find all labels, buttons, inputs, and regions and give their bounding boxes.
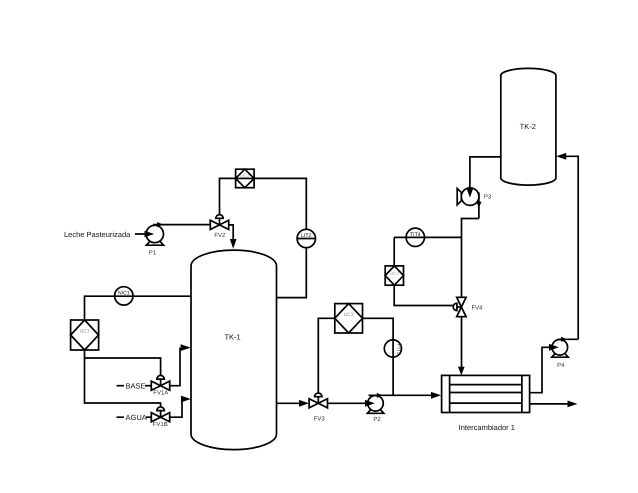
svg-text:FV4: FV4	[471, 305, 483, 312]
wire UC2 to LIT2	[254, 178, 306, 229]
wire P2 discharge to Intercambiador 1	[431, 392, 441, 399]
wire FV2 to TK-1 top	[229, 225, 237, 249]
label P4	[557, 362, 565, 369]
label FV4	[471, 305, 483, 312]
svg-text:Intercambiador 1: Intercambiador 1	[459, 423, 515, 432]
valve FV1A	[151, 375, 169, 390]
label AGUA	[117, 413, 152, 422]
label FV3	[314, 416, 326, 423]
valve FV3	[309, 393, 327, 408]
wire TIT4 to UC4	[393, 237, 395, 266]
pump P1	[145, 222, 211, 245]
wire UC1 to FV1B actuator	[85, 358, 161, 408]
label BASE	[117, 382, 152, 391]
wire FV4 to Intercambiador top	[458, 317, 465, 376]
svg-text:P4: P4	[557, 362, 565, 369]
pump P2	[365, 393, 438, 414]
wire inlet to P1	[135, 233, 152, 235]
instrument FIT3	[384, 340, 401, 357]
wire FV1B to TK-1	[170, 396, 191, 418]
label P3	[484, 194, 492, 201]
instrument NIC1	[115, 287, 133, 305]
label FV2	[214, 232, 226, 239]
wire main line to TIT4	[394, 236, 461, 238]
svg-text:AGUA: AGUA	[126, 413, 147, 422]
wire TK-1 left wall to NIC1 to UC1	[85, 296, 192, 320]
svg-text:TIT4: TIT4	[410, 232, 421, 238]
svg-text:P2: P2	[373, 416, 381, 423]
pump P3	[457, 188, 481, 219]
wire P4 to TK-2 inlet	[556, 153, 578, 339]
tank TK-2	[501, 68, 556, 185]
wire Intercambiador outlet right bottom	[530, 401, 578, 408]
svg-text:FIT3: FIT3	[395, 344, 401, 355]
instrument TIT4	[406, 228, 424, 246]
wire LIT2 to TK-1 right wall	[277, 248, 307, 298]
svg-text:P1: P1	[149, 250, 157, 257]
wire UC3 to FV3 actuator	[318, 318, 335, 393]
svg-text:P3: P3	[484, 194, 492, 201]
wire Intercambiador outlet to P4	[530, 347, 552, 392]
wire UC1 to FV1A actuator	[85, 350, 161, 376]
label P2	[373, 416, 381, 423]
wire TK-1 bottom outlet to FV3	[277, 400, 309, 407]
valve FV2	[210, 215, 228, 230]
svg-text:UC4: UC4	[390, 271, 400, 276]
wire P3 discharge to FV4	[462, 219, 479, 298]
wire FV1A to TK-1	[170, 344, 191, 386]
tank TK-1	[191, 250, 277, 449]
controller UC3	[335, 304, 363, 333]
label Intercambiador 1	[459, 423, 515, 432]
label FV1B	[153, 421, 168, 428]
svg-text:Leche Pasteurizada: Leche Pasteurizada	[64, 230, 131, 239]
svg-text:TK-2: TK-2	[520, 122, 536, 131]
svg-text:UC2: UC2	[240, 173, 250, 178]
svg-text:NIC1: NIC1	[118, 291, 130, 297]
valve FV4	[453, 297, 466, 316]
wire UC4 to FV4 actuator	[394, 285, 453, 305]
svg-text:FV1A: FV1A	[153, 390, 168, 397]
controller UC4	[385, 266, 403, 285]
wire UC2 to FV2 actuator	[220, 178, 236, 215]
heat exchanger Intercambiador 1	[442, 375, 530, 412]
svg-text:BASE: BASE	[126, 382, 146, 391]
wire FV3 to P2	[328, 402, 373, 404]
valve FV1B	[151, 407, 169, 422]
svg-text:TK-1: TK-1	[224, 333, 240, 342]
controller UC2	[236, 169, 255, 188]
wire TK-2 outlet to P3	[470, 157, 501, 189]
label FV1A	[153, 390, 168, 397]
label P1	[149, 250, 157, 257]
wire UC3 to FIT3 to pump discharge	[363, 318, 394, 395]
svg-text:FV2: FV2	[214, 232, 226, 239]
label Leche Pasteurizada	[64, 230, 131, 239]
svg-text:UC1: UC1	[80, 329, 90, 335]
controller UC1	[71, 320, 99, 350]
svg-text:FV3: FV3	[314, 416, 326, 423]
pump P4	[549, 337, 578, 358]
instrument LIT2	[297, 229, 315, 247]
svg-text:UC3: UC3	[344, 312, 354, 318]
svg-text:FV1B: FV1B	[153, 421, 168, 428]
svg-text:LIT2: LIT2	[301, 233, 311, 239]
